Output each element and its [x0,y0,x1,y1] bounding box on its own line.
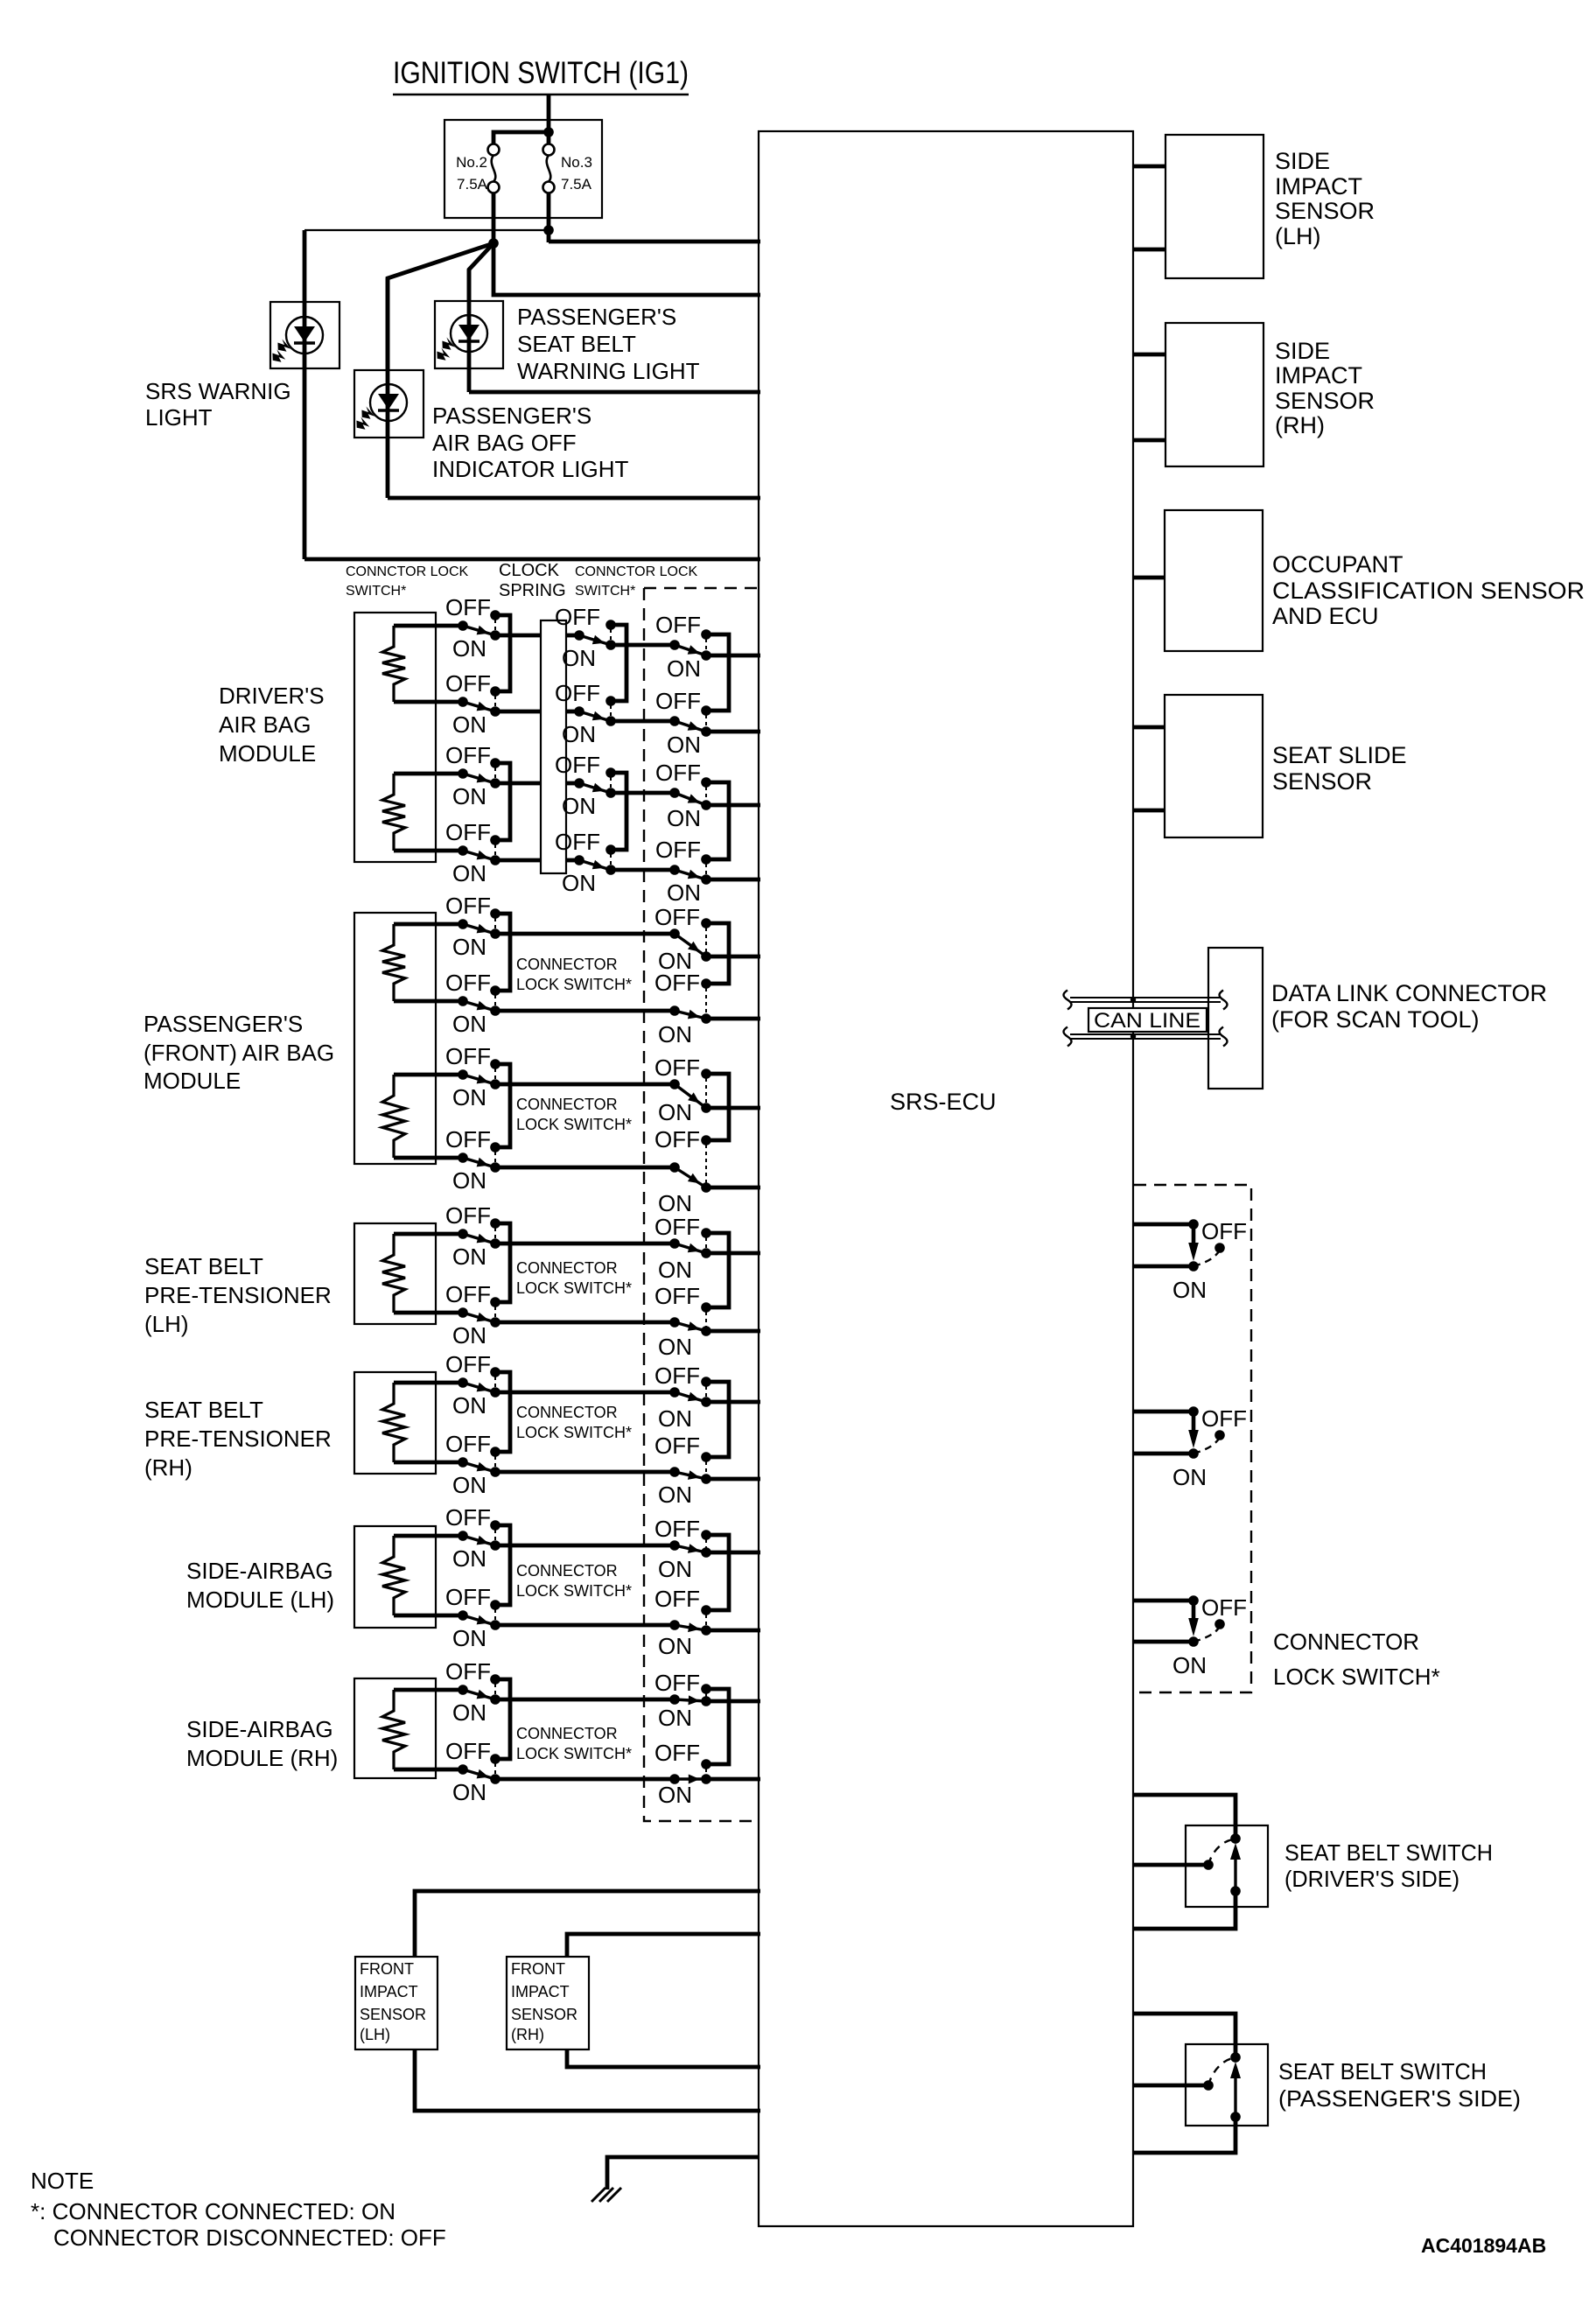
svg-text:ON: ON [452,1472,486,1498]
wire: squib bottom lead [394,1156,463,1160]
wire: col3 to SRS-ECU (bottom) [706,1329,760,1334]
mechanical link [705,1769,707,1775]
svg-text:OFF: OFF [445,970,491,996]
free contact [1214,1430,1225,1440]
switch passenger squib 2 col3 bottom: blade [675,1167,706,1188]
svg-text:SEAT BELT SWITCH: SEAT BELT SWITCH [1278,2058,1487,2084]
wire: squib top lead [394,1688,463,1692]
switch driver col2 #3: blade [579,783,611,793]
switch driver col1 #3: ON contact [490,778,500,788]
OFF contact [701,1377,711,1387]
svg-text:OFF: OFF [445,819,491,845]
dashed box: connector lock switch (right) [1134,1185,1251,1692]
switch side-airbag module RH col3 top: common [669,1694,680,1705]
wire to fuse No.3 [547,132,551,144]
mechanical link [705,864,707,875]
svg-text:OFF: OFF [445,1738,491,1764]
ground symbol [591,2188,621,2202]
svg-text:CONNECTOR: CONNECTOR [1273,1629,1419,1655]
wire: clock spring to col2 switch [566,858,579,863]
wire: col1 to col3 (top) [495,1698,675,1702]
switch seat belt pre-tensioner RH col1 bottom: common [458,1457,468,1468]
LED: passenger's air bag off indicator light [355,384,407,431]
svg-text:DRIVER'S: DRIVER'S [219,683,325,709]
switch passenger squib 1 col1 bottom: ON contact [490,1005,500,1016]
svg-text:SENSOR: SENSOR [511,2006,577,2023]
wire: ECU to side impact sensor LH (1) [1133,165,1165,169]
squib R1 (driver air bag) [382,626,405,702]
wire to fuse No.2 [493,132,549,144]
svg-text:ON: ON [1172,1464,1207,1490]
svg-text:OFF: OFF [654,1670,700,1696]
svg-text:MODULE (LH): MODULE (LH) [186,1587,334,1613]
svg-text:OFF: OFF [445,1351,491,1377]
switch driver col1 #4: common [458,845,468,856]
dashed box: connector lock switches (column 3) [644,588,759,1821]
mechanical link [705,1312,707,1327]
OFF contact [701,1302,711,1313]
switch seat belt pre-tensioner LH col1 top: OFF contact [490,1218,500,1229]
switch seat belt pre-tensioner RH col1 bottom: OFF contact [490,1447,500,1457]
svg-text:OFF: OFF [445,1431,491,1457]
blade (dashed) [1208,2058,1234,2085]
wire: col3 to SRS-ECU (bottom) [706,1477,760,1482]
arrow: plunger [1230,2062,1241,2117]
svg-text:OFF: OFF [654,1126,700,1152]
mechanical link [705,928,707,952]
svg-text:LOCK SWITCH*: LOCK SWITCH* [516,1116,632,1133]
svg-text:AC401894AB: AC401894AB [1421,2234,1546,2257]
svg-text:OFF: OFF [654,970,700,996]
occupant classification sensor box [1165,510,1263,651]
switch seat belt pre-tensioner RH col1 bottom: ON contact [490,1467,500,1477]
wire: clock spring to col2 switch [566,634,579,638]
mechanical link [494,1152,496,1163]
svg-text:LOCK SWITCH*: LOCK SWITCH* [516,976,632,993]
switch driver col1 #2: blade [463,702,495,711]
switch seat belt pre-tensioner LH col3 bottom: blade [675,1321,706,1331]
squib (seat belt pre-tensioner RH) [382,1383,405,1462]
svg-text:ON: ON [562,793,596,819]
switch side-airbag module LH col1 top: common [458,1531,468,1541]
svg-text:SENSOR: SENSOR [1275,388,1375,414]
wire: to clock spring [495,858,541,863]
switch side-airbag module LH col3 bottom: common [669,1620,680,1630]
OFF contact [701,918,711,928]
switch side-airbag module LH col3 top: common [669,1540,680,1551]
wire: fuse No.2 to SRS-ECU [493,243,760,295]
squib (passenger squib 1) [382,924,405,1001]
wire through seat belt warning light [467,270,472,392]
switch driver col2 #3: ON contact [605,788,616,798]
svg-text:CONNECTOR DISCONNECTED: OFF: CONNECTOR DISCONNECTED: OFF [53,2224,446,2251]
svg-text:OFF: OFF [654,1740,700,1766]
ON contact [701,1182,711,1193]
mechanical link [494,918,496,929]
wire: col3 to SRS-ECU [706,878,760,882]
wire: squib R1 bottom lead [394,700,463,704]
wire: col3 to SRS-ECU [706,654,760,658]
wire: ECU to connector lock switch unit 1 (off side) [1133,1223,1193,1227]
arrow: plunger [1230,1843,1241,1891]
svg-text:IGNITION SWITCH (IG1): IGNITION SWITCH (IG1) [393,56,689,90]
svg-text:OFF: OFF [655,760,701,786]
wire: ECU to side impact sensor RH (2) [1133,438,1165,443]
ON contact [701,1013,711,1024]
mechanical link [705,1539,707,1548]
wire: fuse No.2 output [492,193,496,243]
svg-text:SPRING: SPRING [499,581,566,600]
node: lamp feed junction [488,238,499,249]
wire: col3 to SRS-ECU (bottom) [706,1186,760,1190]
svg-text:OFF: OFF [655,612,701,638]
ON contact [701,1248,711,1258]
switch driver col1 #3: blade [463,774,495,783]
switch driver col1 #2: common [458,697,468,707]
wire: col3 to SRS-ECU (bottom) [706,1017,760,1021]
ON contact [701,951,711,962]
svg-text:ON: ON [452,934,486,960]
mechanical link [610,705,612,717]
svg-text:CONNECTOR: CONNECTOR [516,1096,618,1113]
switch seat belt pre-tensioner LH col3 top: common [669,1238,680,1249]
wire: col3 to SRS-ECU (top) [706,1400,760,1405]
svg-text:ON: ON [667,805,701,831]
svg-text:*: CONNECTOR CONNECTED: ON: *: CONNECTOR CONNECTED: ON [31,2198,395,2224]
switch driver col3 #3: blade [675,793,706,805]
wire: ECU to occupant classification sensor [1133,576,1165,580]
svg-text:PRE-TENSIONER: PRE-TENSIONER [144,1282,332,1308]
switch side-airbag module LH col1 bottom: common [458,1610,468,1621]
switch driver col2 #1: common [574,630,584,641]
OFF contact [701,1605,711,1615]
switch driver col2 #2: common [574,706,584,717]
svg-text:FRONT: FRONT [360,1960,414,1978]
SRS-ECU box [759,131,1133,2226]
squib (passenger squib 2) [382,1075,405,1158]
wire: squib R1 top lead [394,624,463,628]
switch side-airbag module RH col1 bottom: common [458,1764,468,1775]
CAN line (upper pair) [1070,997,1221,998]
svg-text:ON: ON [658,1099,692,1125]
svg-text:No.2: No.2 [456,154,487,171]
svg-text:CONNECTOR: CONNECTOR [516,1725,618,1742]
arrow: plunger [1188,1416,1199,1448]
mechanical link [494,1456,496,1468]
switch seat belt pre-tensioner LH col1 top: ON contact [490,1238,500,1249]
lower contact [1230,2112,1241,2122]
svg-text:OFF: OFF [555,604,600,630]
blade (dashed) [1208,1839,1234,1865]
switch passenger squib 1 col1 bottom: common [458,996,468,1006]
wire: OFF bracket seat belt pre-tensioner RH col3 [706,1382,729,1457]
wire: front impact sensor RH to SRS-ECU (bottom) [567,2049,760,2067]
wire: squib bottom lead [394,999,463,1004]
svg-text:ON: ON [452,1699,486,1726]
side impact sensor (RH) box [1165,323,1263,466]
svg-text:OFF: OFF [555,680,600,706]
wire: squib bottom lead [394,1614,463,1618]
mechanical link [494,995,496,1006]
wire: OFF bracket side-airbag module LH col3 [706,1535,729,1610]
svg-text:OFF: OFF [445,1043,491,1069]
svg-text:ON: ON [452,1084,486,1110]
wire: OFF bracket seat belt pre-tensioner LH col1 [495,1223,510,1302]
switch side-airbag module RH col3 bottom: blade [675,1775,706,1784]
switch driver col2 #1: ON contact [605,640,616,650]
svg-text:LOCK SWITCH*: LOCK SWITCH* [516,1279,632,1297]
OFF contact [701,1684,711,1694]
wire: ECU to connector lock switch unit 3 (off side) [1133,1599,1193,1603]
svg-text:SENSOR: SENSOR [360,2006,426,2023]
fuse No.3 7.5A [543,144,555,193]
svg-text:ON: ON [658,1556,692,1582]
wire: fuse No.3 to SRS-ECU [549,240,760,244]
wire: col1 to col3 (top) [495,1082,675,1087]
SRS warning light box [270,302,339,368]
svg-text:MODULE (RH): MODULE (RH) [186,1745,338,1771]
wire: col3 to SRS-ECU [706,730,760,734]
squib R2 (driver air bag) [382,774,405,851]
svg-text:ON: ON [452,1625,486,1651]
svg-text:OFF: OFF [654,1586,700,1612]
switch seat belt pre-tensioner LH col1 top: blade [463,1234,495,1244]
clock spring box [541,620,566,873]
svg-text:ON: ON [452,1167,486,1194]
switch driver col1 #3: common [458,768,468,779]
mechanical link [494,1609,496,1621]
svg-text:(LH): (LH) [144,1311,189,1337]
svg-text:AND ECU: AND ECU [1272,603,1379,629]
svg-text:CLASSIFICATION SENSOR: CLASSIFICATION SENSOR [1272,578,1585,604]
mechanical link [705,715,707,727]
wire: ECU to connector lock switch unit 3 (on side) [1133,1640,1193,1644]
svg-text:CONNCTOR LOCK: CONNCTOR LOCK [346,564,468,579]
seat belt pre-tensioner LH box [354,1223,436,1324]
wire: ECU to connector lock switch unit 2 (off side) [1133,1410,1193,1414]
OFF contact [701,1452,711,1462]
svg-text:OFF: OFF [655,688,701,714]
svg-text:ON: ON [452,1011,486,1037]
squib (side-airbag module RH) [382,1690,405,1769]
switch passenger squib 2 col3 bottom: common [669,1162,680,1173]
svg-text:OFF: OFF [445,1126,491,1152]
svg-text:OFF: OFF [655,837,701,863]
wire: col1 to col3 (bottom) [495,1009,675,1013]
wire: to clock spring [495,781,541,786]
svg-text:SENSOR: SENSOR [1272,768,1372,795]
switch passenger squib 1 col3 bottom: blade [675,1010,706,1019]
svg-text:SIDE-AIRBAG: SIDE-AIRBAG [186,1558,333,1584]
svg-text:AIR BAG OFF: AIR BAG OFF [432,430,577,456]
ON contact [701,1326,711,1336]
wire: col3 to SRS-ECU (bottom) [706,1777,760,1782]
fuse box [444,120,602,218]
svg-text:7.5A: 7.5A [561,176,592,193]
switch side-airbag module RH col1 top: ON contact [490,1694,500,1705]
wire: col3 to SRS-ECU (top) [706,955,760,959]
wire: ECU to seat slide sensor (1) [1133,725,1165,730]
switch seat belt pre-tensioner RH col1 bottom: blade [463,1462,495,1472]
wire: OFF bracket side-airbag module LH col1 [495,1525,510,1605]
wire: front impact sensor LH to SRS-ECU (top) [415,1891,760,1957]
mechanical link [705,1145,707,1183]
svg-text:CONNCTOR LOCK: CONNCTOR LOCK [575,564,697,579]
mechanical link [705,1078,707,1103]
svg-text:ON: ON [562,870,596,896]
seat slide sensor box [1165,695,1263,837]
switch side-airbag module RH col1 bottom: ON contact [490,1774,500,1784]
mechanical link [494,696,496,707]
lower contact [1230,1886,1241,1896]
svg-text:OFF: OFF [654,904,700,930]
svg-text:ON: ON [452,1392,486,1419]
switch driver col3 #1: common [669,640,680,650]
wire: squib bottom lead [394,1311,463,1315]
mechanical link [494,1068,496,1080]
wire: air bag off light to SRS-ECU [388,496,760,501]
wire: OFF bracket passenger squib 2 col3 [706,1074,729,1140]
data link connector box [1208,948,1263,1089]
switch side-airbag module LH col3 top: blade [675,1544,706,1553]
switch driver col3 #3: common [669,788,680,798]
svg-text:OFF: OFF [654,1516,700,1542]
svg-text:SIDE-AIRBAG: SIDE-AIRBAG [186,1716,333,1742]
mechanical link [610,629,612,641]
wire: squib top lead [394,1534,463,1538]
mechanical link [494,620,496,631]
wire: OFF bracket seat belt pre-tensioner LH col3 [706,1233,729,1307]
switch side-airbag module LH col1 top: OFF contact [490,1520,500,1531]
svg-text:7.5A: 7.5A [457,176,488,193]
side-airbag module LH box [354,1526,436,1628]
svg-text:PASSENGER'S: PASSENGER'S [517,304,676,330]
wire through SRS warning light [303,230,307,559]
wire: passenger's side back to ECU [1133,2117,1235,2153]
wire: to clock spring [495,634,541,638]
switch passenger squib 2 col1 top: OFF contact [490,1059,500,1069]
ON contact [701,1547,711,1558]
switch driver col3 #3: ON contact [701,800,711,810]
wire: col3 to SRS-ECU (bottom) [706,1629,760,1633]
mechanical link [705,1461,707,1475]
moving contact [1203,1860,1214,1870]
switch driver col2 #4: blade [579,860,611,870]
switch passenger squib 2 col1 top: blade [463,1075,495,1084]
switch driver col2 #4: OFF contact [605,844,616,855]
svg-text:ON: ON [658,1633,692,1659]
svg-text:OFF: OFF [555,829,600,855]
svg-text:CAN LINE: CAN LINE [1094,1009,1200,1033]
moving contact [1203,2080,1214,2091]
svg-text:SEAT BELT: SEAT BELT [144,1397,263,1423]
svg-text:(RH): (RH) [1275,412,1325,438]
wire: clock spring to col2 switch [566,781,579,786]
svg-text:SENSOR: SENSOR [1275,198,1375,224]
svg-text:SIDE: SIDE [1275,338,1330,364]
wire: ECU to passenger's side pivot [1133,2014,1235,2057]
switch passenger squib 1 col1 top: common [458,919,468,929]
wire: front impact sensor LH to SRS-ECU (bottom) [415,2049,760,2111]
ON contact [701,1397,711,1407]
svg-text:ON: ON [452,1322,486,1349]
svg-text:FRONT: FRONT [511,1960,565,1978]
mechanical link [494,1377,496,1388]
wire: col3 to SRS-ECU [706,803,760,808]
svg-text:DATA LINK CONNECTOR: DATA LINK CONNECTOR [1271,980,1547,1006]
title underline [393,94,689,96]
svg-text:WARNING LIGHT: WARNING LIGHT [517,358,700,384]
svg-text:(PASSENGER'S SIDE): (PASSENGER'S SIDE) [1278,2085,1521,2112]
switch driver col2 #1: OFF contact [605,620,616,630]
mechanical link [705,787,707,801]
wire: col1 to col3 (top) [495,1242,675,1246]
switch passenger squib 2 col3 top: common [669,1079,680,1089]
OFF contact [701,978,711,989]
wire: squib bottom lead [394,1768,463,1772]
switch seat belt pre-tensioner RH col3 top: common [669,1387,680,1398]
switch driver col1 #3: OFF contact [490,758,500,768]
wire: OFF bracket side-airbag module RH col1 [495,1679,510,1759]
wire through air bag off light [386,278,390,498]
mechanical link [705,1386,707,1398]
switch passenger squib 2 col1 bottom: common [458,1152,468,1163]
switch driver col1 #4: blade [463,851,495,860]
svg-text:(LH): (LH) [360,2026,390,2043]
wire: driver's side back to ECU [1133,1891,1235,1929]
switch side-airbag module RH col3 bottom: common [669,1774,680,1784]
svg-text:CONNECTOR: CONNECTOR [516,1259,618,1277]
svg-text:SWITCH*: SWITCH* [575,584,635,599]
svg-text:OFF: OFF [654,1283,700,1309]
switch side-airbag module LH col1 bottom: ON contact [490,1620,500,1630]
svg-text:LIGHT: LIGHT [145,404,213,431]
svg-text:No.3: No.3 [561,154,592,171]
svg-text:LOCK SWITCH*: LOCK SWITCH* [1273,1664,1440,1690]
wire: to passenger seat belt warning light [469,243,493,301]
wire: OFF bracket seat belt pre-tensioner RH col1 [495,1372,510,1452]
switch side-airbag module RH col1 top: blade [463,1690,495,1699]
switch seat belt pre-tensioner RH col3 bottom: blade [675,1470,706,1480]
mechanical link [494,1530,496,1541]
svg-text:SEAT BELT SWITCH: SEAT BELT SWITCH [1284,1839,1493,1866]
svg-text:ON: ON [658,1257,692,1283]
wire: OFF bracket driver col3 pair B [706,782,729,859]
mechanical link [494,1684,496,1695]
switch passenger squib 1 col3 bottom: common [669,1005,680,1016]
wire: squib top lead [394,1232,463,1237]
svg-text:OFF: OFF [654,1054,700,1081]
svg-text:OFF: OFF [654,1433,700,1459]
mechanical link [494,1228,496,1239]
svg-text:OFF: OFF [1201,1594,1247,1621]
wire: front impact sensor RH to SRS-ECU (top) [567,1934,760,1957]
switch driver col1 #1: blade [463,626,495,635]
arrow: plunger [1188,1605,1199,1636]
svg-text:ON: ON [452,860,486,886]
switch seat belt pre-tensioner LH col1 bottom: ON contact [490,1317,500,1328]
switch seat belt pre-tensioner LH col3 bottom: common [669,1317,680,1328]
switch seat belt pre-tensioner RH col1 top: blade [463,1383,495,1392]
svg-text:SRS-ECU: SRS-ECU [890,1089,997,1115]
svg-text:ON: ON [667,879,701,906]
switch passenger squib 1 col3 top: blade [675,934,706,956]
switch seat belt pre-tensioner LH col3 top: blade [675,1244,706,1253]
wire: ECU to side impact sensor RH (1) [1133,353,1165,357]
passenger's air bag off indicator light box [354,370,423,438]
switch passenger squib 1 col1 bottom: blade [463,1001,495,1011]
CAN line (lower pair) [1070,1033,1221,1035]
